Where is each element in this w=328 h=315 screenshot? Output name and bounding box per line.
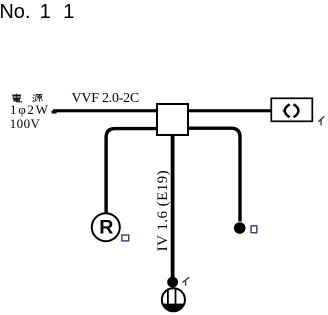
svg-text:100V: 100V	[10, 116, 41, 131]
wire W3: left branch to lamp receptacle R	[106, 129, 158, 214]
svg-text:VVF 2.0-2C: VVF 2.0-2C	[72, 91, 140, 106]
label ロ (switch)	[251, 226, 257, 233]
kanji 源	[33, 94, 43, 102]
wire W1: power source to junction box	[52, 109, 158, 113]
kanji 電	[12, 94, 22, 102]
label 100V	[10, 116, 41, 131]
label イ (ceiling rosette)	[318, 116, 324, 125]
ceiling rosette 角形引掛シーリング	[271, 98, 312, 121]
svg-text:IV 1.6 (E19): IV 1.6 (E19)	[155, 170, 171, 251]
svg-text:1φ2W: 1φ2W	[10, 102, 50, 117]
title No. 11	[0, 1, 74, 23]
svg-text:R: R	[99, 217, 113, 239]
switch イ	[167, 277, 178, 288]
svg-text:No.11: No.11	[0, 1, 74, 23]
junction box (outlet box)	[157, 104, 188, 135]
wire W5: right branch to switch ro	[187, 128, 240, 221]
outlet コンセント	[162, 288, 185, 311]
lamp receptacle R	[92, 213, 120, 241]
wire W4: middle branch (IV 1.6 E19 conduit)	[171, 135, 175, 277]
wire W2: junction box to ceiling fixture	[187, 109, 272, 112]
switch ロ	[234, 222, 246, 234]
label イ (switch)	[183, 277, 190, 285]
label ロ (lamp receptacle)	[122, 235, 129, 241]
label VVF 2.0-2C	[72, 91, 140, 106]
label 電源 (power source kanji, drawn)	[12, 94, 43, 103]
label IV 1.6 (E19)	[155, 170, 171, 251]
label 1φ2W	[10, 102, 50, 117]
